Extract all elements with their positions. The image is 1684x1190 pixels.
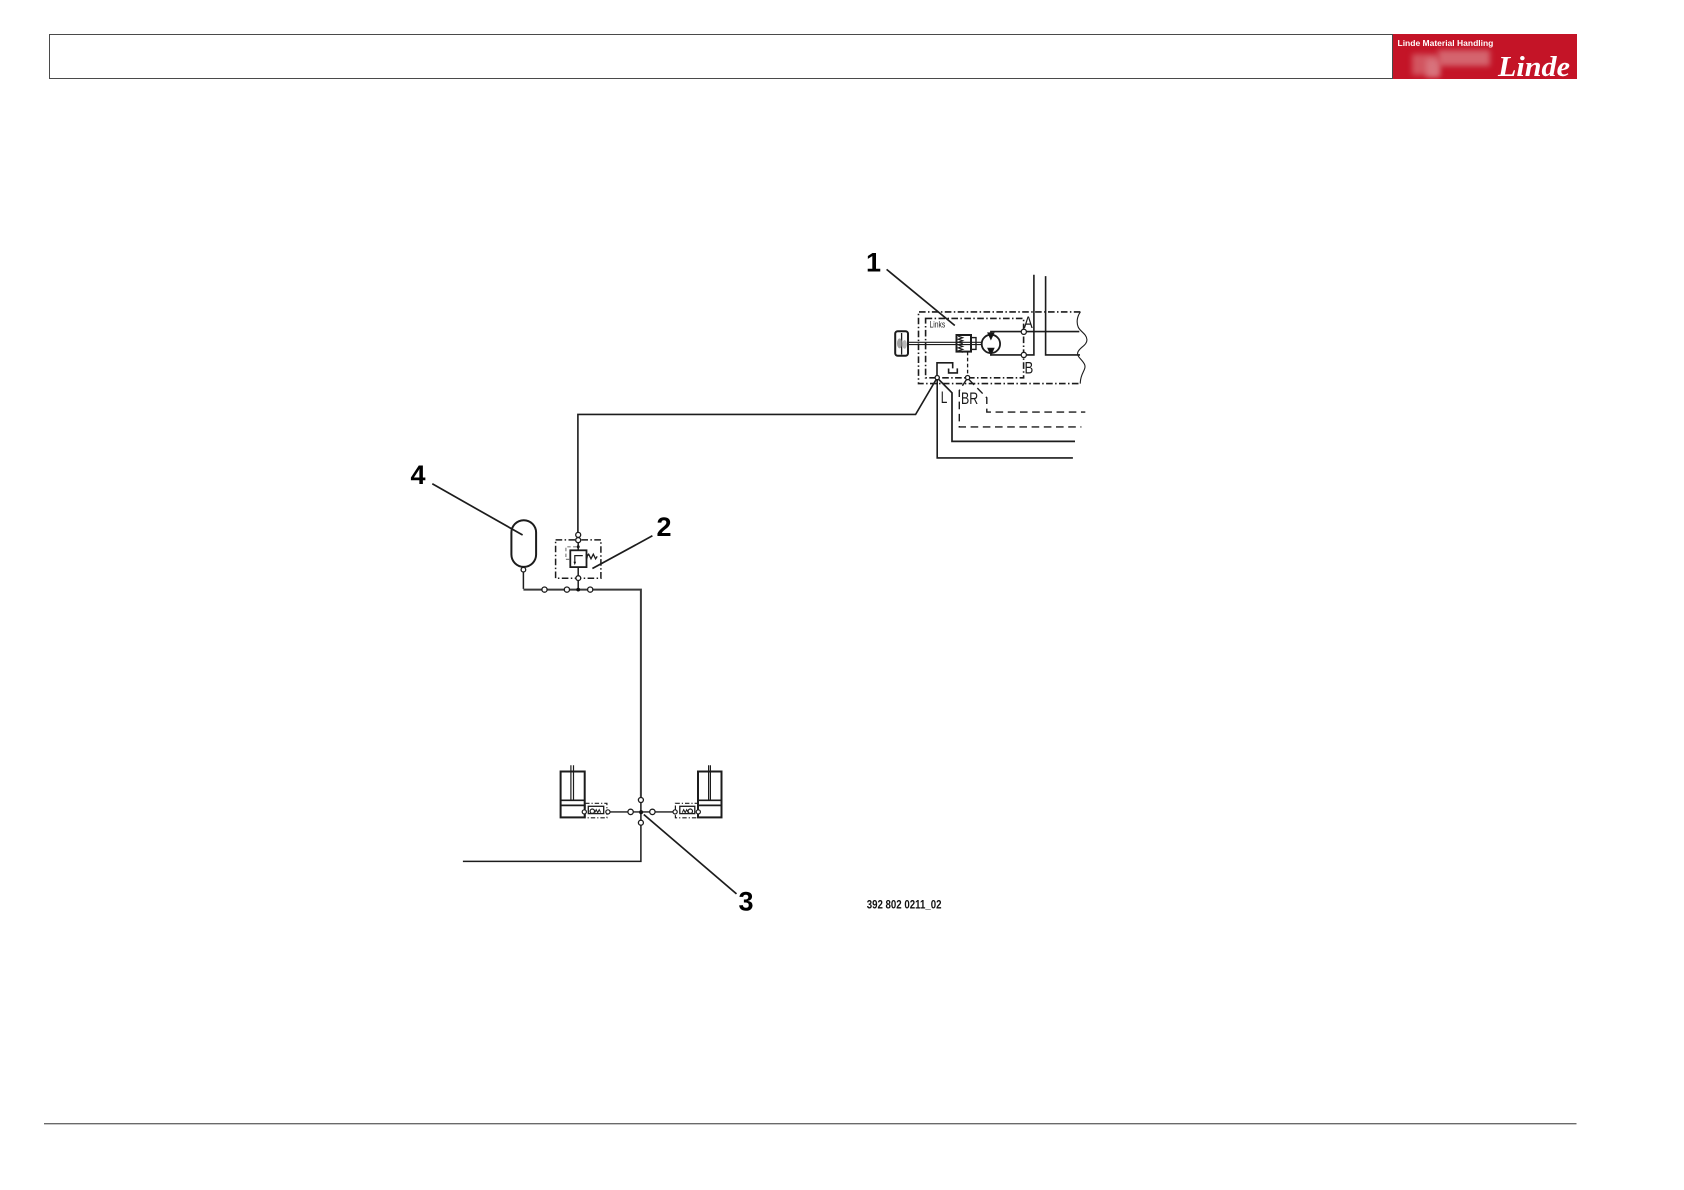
coupling circle upper 1 — [576, 532, 581, 537]
manifold junction dot — [576, 588, 580, 592]
right cylinder rod — [709, 765, 711, 800]
port L node — [935, 376, 939, 380]
right valve port circle inner — [696, 810, 700, 814]
Linde script logo — [1493, 34, 1576, 80]
left throttle valve body — [588, 806, 603, 813]
svg-text:A: A — [1024, 314, 1033, 332]
blurred censored text block C — [1438, 50, 1490, 66]
leader line to component 1 — [887, 269, 955, 325]
manifold coupling circle 1 — [542, 587, 547, 592]
valve 2 dash-dot enclosure — [556, 540, 601, 578]
footer rule — [44, 1123, 1577, 1125]
coupling circle left of junction — [628, 809, 633, 814]
Linde Material Handling text — [1398, 38, 1494, 48]
node B circle — [1021, 352, 1026, 357]
pilot dashed loop — [566, 547, 577, 560]
left throttle valve dash-dot box — [585, 803, 607, 818]
coupling circle upper 2 — [576, 538, 581, 543]
left cylinder piston — [561, 800, 585, 805]
port BR node — [966, 376, 970, 380]
right throttle valve spring — [682, 810, 688, 813]
left valve port circle outer — [606, 810, 610, 814]
svg-text:L: L — [941, 389, 948, 407]
left cylinder rod — [571, 765, 574, 800]
manifold coupling circle 3 — [588, 587, 593, 592]
wire: accumulator down to manifold — [522, 572, 524, 589]
coupling circle below junction 3 — [638, 820, 643, 825]
component 1 inner dash-dot enclosure (Links section) — [926, 318, 1024, 377]
component 1 outer dash-dot enclosure — [919, 312, 1081, 384]
blurred censored text block A — [1412, 54, 1438, 75]
tear break squiggle — [1077, 312, 1087, 384]
svg-text:392 802 0211_02: 392 802 0211_02 — [867, 897, 942, 911]
leader line to accumulator — [432, 484, 522, 535]
accumulator capsule — [511, 520, 536, 567]
relief valve internal arrow — [575, 556, 583, 563]
leader line from junction to 3 — [644, 815, 737, 894]
svg-text:2: 2 — [657, 512, 672, 542]
wire: B to riser 1 — [1026, 275, 1034, 355]
svg-text:3: 3 — [739, 886, 754, 916]
drain meander symbol — [937, 363, 953, 376]
port B line — [991, 353, 1022, 355]
svg-text:4: 4 — [411, 460, 426, 490]
wire: L port to pressure valve feed — [578, 379, 936, 532]
dashed wire: BR left branch — [959, 379, 1081, 427]
pump arrow bottom (pointing down) — [988, 348, 994, 356]
relief valve spring — [587, 554, 597, 559]
right valve port circle outer — [673, 810, 677, 814]
relief valve square — [570, 550, 586, 567]
left throttle valve spring — [595, 810, 601, 813]
steering wheel — [895, 331, 908, 356]
svg-text:BR: BR — [961, 390, 978, 408]
accumulator port circle — [521, 567, 526, 572]
pump arrow top (pointing down) — [988, 332, 994, 340]
pilot dashed line from valve to BR port — [967, 352, 969, 376]
right cylinder piston — [698, 800, 722, 805]
left throttle valve ball — [590, 809, 594, 813]
wire: down to cylinder junction — [463, 800, 641, 861]
wire: riser 2 down to tear — [1046, 276, 1080, 355]
right throttle valve body — [680, 806, 695, 813]
manifold line — [523, 590, 641, 800]
junction 3 dot — [639, 810, 643, 814]
wire: feed through valve 2 — [577, 543, 579, 590]
header frame — [49, 34, 1393, 79]
right cylinder barrel — [698, 772, 722, 818]
svg-text:1: 1 — [866, 247, 881, 277]
svg-text:B: B — [1025, 359, 1034, 377]
wire: L port diagonal down-right then right (upper) — [939, 379, 1076, 441]
steering shaft (double line) — [908, 342, 981, 344]
dashed wire: BR right branch — [969, 379, 1086, 412]
metering pump circle — [982, 335, 1000, 353]
port A line — [991, 332, 1079, 336]
blurred censored text block B — [1426, 59, 1440, 77]
right throttle valve ball — [688, 809, 692, 813]
coupling circle lower — [576, 576, 581, 581]
left valve port circle inner — [582, 810, 586, 814]
pilot junction dot — [577, 545, 580, 548]
relief valve spring seat — [586, 554, 588, 559]
left cylinder barrel — [561, 772, 585, 818]
node A circle — [1021, 329, 1026, 334]
right throttle valve dash-dot box — [675, 803, 697, 818]
leader line to valve 2 — [592, 536, 652, 569]
svg-text:Links: Links — [930, 319, 946, 329]
wire: L port down then right (lower) — [937, 380, 1073, 458]
Linde logo red box — [1393, 34, 1577, 80]
manifold coupling circle 2 — [564, 587, 569, 592]
cylinder connecting line — [608, 811, 675, 813]
steering control valve with centering springs — [957, 335, 977, 352]
coupling circle right of junction — [650, 809, 655, 814]
coupling circle above junction 3 — [638, 798, 643, 803]
